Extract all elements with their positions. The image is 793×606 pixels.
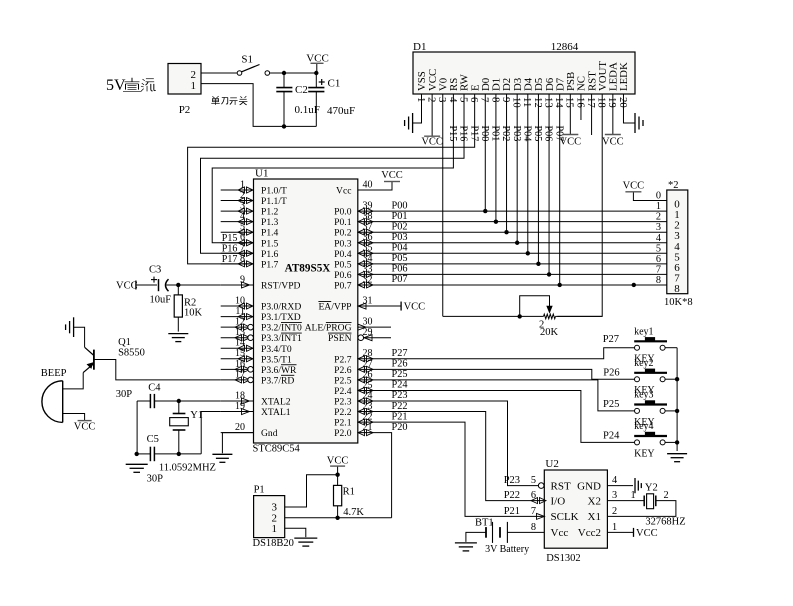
svg-text:P1.2: P1.2 — [261, 207, 279, 218]
rtc U2 right pin numbers — [612, 475, 617, 533]
label Y2 pin1 — [631, 490, 636, 501]
label C5 value 30P — [147, 474, 164, 485]
svg-text:P05: P05 — [392, 253, 408, 264]
label 5V DC (5V直流) — [106, 77, 156, 94]
svg-text:P17: P17 — [222, 254, 238, 265]
lcd D1 pin numbers 1-20 — [415, 97, 629, 108]
label Y2 — [645, 483, 658, 494]
wire lcd pin15 PSB — [569, 94, 571, 135]
svg-text:P26: P26 — [392, 359, 408, 370]
switch key3 — [634, 400, 677, 413]
mcu right pin names — [305, 186, 352, 440]
label C3 value 10uF — [150, 295, 172, 306]
svg-text:LEDK: LEDK — [618, 62, 630, 91]
wire P2 pin1 to caps bottom — [201, 84, 316, 127]
pot wiper arrow — [547, 306, 552, 312]
label net P17 on lcd wire — [468, 126, 479, 142]
rtc U2 left pin names — [551, 480, 579, 539]
label R1 value 4.7K — [343, 507, 364, 518]
label DS18B20 — [253, 538, 294, 549]
lcd module D1 box — [413, 52, 635, 94]
svg-text:STC89C54: STC89C54 — [253, 444, 301, 455]
wire lcd pin17 RST stub — [591, 94, 593, 135]
svg-text:P2.7: P2.7 — [334, 354, 352, 365]
svg-text:1: 1 — [415, 97, 427, 102]
node Y1 bottom junction — [177, 452, 181, 456]
svg-text:P24: P24 — [392, 380, 408, 391]
svg-text:D1: D1 — [413, 41, 426, 53]
svg-text:VCC: VCC — [623, 180, 645, 191]
svg-text:7: 7 — [479, 97, 491, 103]
label C1 — [328, 78, 341, 90]
svg-text:12: 12 — [532, 97, 544, 108]
svg-text:7: 7 — [531, 506, 536, 517]
node P07 junction near resnet — [632, 283, 636, 287]
svg-text:18: 18 — [235, 390, 245, 401]
svg-text:P00: P00 — [479, 126, 490, 142]
wire P0 bus P00-P07 — [358, 211, 667, 285]
svg-text:P3.7/RD: P3.7/RD — [261, 375, 294, 386]
vcc C3 (rst) — [116, 281, 138, 292]
svg-text:Vcc2: Vcc2 — [578, 527, 601, 539]
svg-text:32768HZ: 32768HZ — [645, 517, 685, 528]
svg-text:VCC: VCC — [116, 281, 138, 292]
svg-text:P03: P03 — [392, 232, 408, 243]
wire C3 to mcu pin9 — [167, 284, 221, 286]
svg-text:9: 9 — [500, 97, 512, 102]
ground keys — [667, 454, 687, 462]
label net P27 (mcu side) — [392, 348, 408, 359]
node key4 common junction — [675, 440, 679, 444]
svg-text:P07: P07 — [392, 274, 408, 285]
svg-text:Y2: Y2 — [645, 483, 658, 494]
wire pot wiper loop — [520, 296, 550, 317]
wire keys common — [676, 348, 678, 451]
label C5 — [147, 434, 159, 445]
svg-text:9: 9 — [240, 274, 245, 285]
label key2 — [634, 358, 653, 369]
label P0 bus nets — [392, 200, 408, 285]
vcc u2 Vcc2 — [634, 528, 658, 539]
label switch (单刀开关) — [211, 96, 247, 105]
wire P1 pin3 to R1 top — [285, 475, 338, 507]
svg-text:30: 30 — [363, 317, 373, 328]
node rst junction — [176, 283, 180, 287]
svg-text:2: 2 — [426, 97, 438, 102]
svg-text:P27: P27 — [603, 334, 619, 345]
wire lcd D0-D7 drops to P0 bus — [485, 94, 559, 285]
svg-text:key2: key2 — [634, 358, 653, 369]
connector P2 — [168, 64, 201, 95]
svg-text:DS1302: DS1302 — [546, 553, 580, 564]
svg-text:DS18B20: DS18B20 — [253, 538, 294, 549]
wire xtal1 to C5 — [201, 412, 221, 454]
svg-text:P0.1: P0.1 — [334, 217, 352, 228]
wire ground to Q1 — [74, 327, 85, 347]
label net P21 (mcu side) — [392, 411, 408, 422]
label S1 — [241, 54, 253, 66]
resistor-network *2 box — [667, 190, 688, 294]
label net P15 on lcd wire — [447, 126, 458, 142]
label key3 — [634, 390, 653, 401]
label resnet inside numbers — [674, 199, 680, 295]
svg-text:key3: key3 — [634, 390, 653, 401]
svg-text:P0.0: P0.0 — [334, 207, 352, 218]
switch S1 — [237, 65, 269, 76]
svg-text:BT1: BT1 — [475, 518, 494, 529]
svg-text:Q1: Q1 — [118, 337, 131, 348]
svg-text:1: 1 — [631, 490, 636, 501]
node C2 bottom junction — [282, 124, 286, 128]
wire lcd pin16 NC stub — [580, 94, 582, 120]
label C2 — [295, 84, 308, 96]
label DS1302 — [546, 553, 580, 564]
svg-text:1: 1 — [612, 522, 617, 533]
label net P27 (key side) — [603, 334, 619, 345]
svg-text:10: 10 — [511, 97, 523, 108]
svg-text:ALE/PROG: ALE/PROG — [305, 323, 352, 334]
rtc U2 right pin names — [577, 480, 601, 539]
svg-text:P22: P22 — [392, 401, 408, 412]
svg-text:P2: P2 — [179, 104, 191, 116]
svg-text:15: 15 — [564, 97, 576, 108]
wire lcd pin3 V0 to potentiometer — [442, 94, 444, 316]
vcc lcd PSB — [560, 135, 582, 148]
svg-text:P22: P22 — [504, 490, 520, 501]
svg-text:P01: P01 — [490, 126, 501, 142]
svg-text:P3.0/RXD: P3.0/RXD — [261, 302, 301, 313]
wire net P25 to key3 — [358, 380, 635, 411]
mcu left pin arrows — [235, 187, 253, 415]
rtc U2 pin6 arrows — [531, 498, 546, 504]
capacitor C2 — [276, 73, 292, 126]
vcc VCC (power entry) — [306, 53, 329, 73]
svg-text:P0.6: P0.6 — [334, 270, 352, 281]
svg-text:RST: RST — [551, 480, 571, 492]
svg-text:R1: R1 — [343, 487, 355, 498]
svg-text:P01: P01 — [392, 211, 408, 222]
svg-text:P0.3: P0.3 — [334, 238, 352, 249]
svg-text:P1.0/T: P1.0/T — [261, 186, 287, 197]
wire mcu pin30 ALE stub — [358, 326, 391, 328]
mcu left pin names — [261, 186, 302, 440]
svg-text:P2.4: P2.4 — [334, 386, 352, 397]
node Y1 top junction — [177, 399, 181, 403]
label net P15 (mcu side) — [222, 233, 238, 244]
svg-text:16: 16 — [574, 97, 586, 108]
svg-text:8: 8 — [489, 97, 501, 102]
svg-text:P3.5/T1: P3.5/T1 — [261, 354, 292, 365]
rtc U2 pin7 arrow — [537, 513, 545, 519]
svg-text:XTAL1: XTAL1 — [261, 407, 291, 418]
label C1 value 470uF — [327, 105, 355, 117]
vcc R1 — [327, 456, 349, 475]
resistor R1 — [334, 475, 342, 518]
svg-text:4: 4 — [447, 97, 459, 103]
svg-text:P25: P25 — [603, 399, 619, 410]
vcc mcu pin40 — [381, 170, 403, 182]
svg-text:XTAL2: XTAL2 — [261, 397, 291, 408]
vcc beep — [74, 421, 96, 433]
svg-text:P24: P24 — [603, 431, 620, 442]
svg-text:3: 3 — [656, 222, 661, 233]
svg-text:P23: P23 — [392, 390, 408, 401]
wire net P22 to ds1302 — [358, 412, 545, 501]
svg-text:19: 19 — [606, 97, 618, 108]
rtc U2 left pin numbers — [531, 475, 536, 533]
resistor 20K potentiometer body — [544, 314, 556, 319]
ground Q1 emitter — [66, 317, 74, 337]
svg-text:P15: P15 — [222, 233, 238, 244]
label Y1 — [190, 410, 203, 421]
wire mcu pin40 Vcc — [358, 182, 392, 191]
wire u2 X2 to crystal Y2 — [607, 500, 644, 502]
svg-text:P21: P21 — [392, 411, 408, 422]
svg-text:3: 3 — [436, 97, 448, 102]
svg-text:P20: P20 — [392, 422, 408, 433]
svg-text:P06: P06 — [543, 126, 554, 142]
svg-text:P0.7: P0.7 — [334, 280, 352, 291]
svg-text:U1: U1 — [255, 168, 268, 180]
svg-text:1: 1 — [656, 201, 661, 212]
label KEY under key3 — [634, 417, 655, 428]
switch key2 — [634, 369, 677, 382]
label net P17 (mcu side) — [222, 254, 238, 265]
ground BT1 — [455, 543, 477, 551]
rtc U2 DS1302 box — [544, 470, 607, 548]
vcc mcu EA/VPP — [401, 302, 425, 313]
label 32768HZ — [645, 517, 685, 528]
svg-text:U2: U2 — [545, 458, 558, 470]
svg-text:8: 8 — [531, 522, 536, 533]
label C2 value 0.1uF — [295, 104, 320, 116]
capacitor C4 — [137, 394, 179, 408]
svg-text:P3.4/T0: P3.4/T0 — [261, 344, 292, 355]
svg-text:P2.2: P2.2 — [334, 407, 352, 418]
wire lcd pin20 LEDK — [623, 94, 635, 123]
svg-text:Vcc: Vcc — [336, 186, 351, 197]
svg-text:P21: P21 — [504, 506, 520, 517]
label resnet designator *2 — [668, 180, 679, 191]
svg-text:8: 8 — [674, 283, 680, 295]
label BEEP — [41, 368, 67, 379]
mcu left pin stubs — [221, 190, 254, 433]
svg-text:17: 17 — [585, 97, 597, 108]
svg-text:0: 0 — [656, 191, 661, 202]
svg-text:6: 6 — [656, 254, 661, 265]
wire Q1 collector to beep — [63, 373, 83, 389]
node key2 common junction — [675, 377, 679, 381]
wire net P15 (lcd RS to mcu P1.5) — [212, 94, 453, 243]
capacitor C3 (polarized) — [151, 277, 169, 292]
wire battery to ground — [466, 532, 486, 542]
rtc U2 pin5 bubble — [538, 483, 544, 489]
label pot value 20K — [540, 327, 559, 338]
svg-text:P2.0: P2.0 — [334, 428, 352, 439]
transistor Q1 S8550 — [83, 347, 94, 372]
wire P1 pin1 to ground — [285, 528, 306, 537]
label net P25 (mcu side) — [392, 369, 408, 380]
svg-text:6: 6 — [468, 97, 480, 103]
ground P1 — [294, 538, 317, 546]
svg-text:X1: X1 — [588, 511, 601, 523]
ground R2 — [168, 334, 188, 342]
svg-text:P3.1/TXD: P3.1/TXD — [261, 312, 301, 323]
svg-text:P27: P27 — [392, 348, 408, 359]
label net P21 (u2 side) — [504, 506, 520, 517]
wire mcu pin20 Gnd — [222, 433, 253, 454]
label P1 — [254, 485, 265, 496]
label Q1 type S8550 — [118, 348, 145, 359]
wire beep to vcc — [63, 414, 85, 421]
connector P1 (DS18B20) box — [254, 496, 285, 538]
label KEY under key2 — [634, 385, 655, 396]
label D1 — [413, 41, 426, 53]
label C3 — [149, 265, 161, 276]
wire P1 pin2 to P20 — [285, 517, 392, 519]
vcc resnet — [623, 180, 645, 192]
ground lcd LEDK — [635, 113, 643, 133]
svg-text:40: 40 — [363, 179, 373, 190]
svg-text:P06: P06 — [392, 264, 408, 275]
wire xtal2 row — [179, 400, 221, 402]
svg-text:30P: 30P — [116, 389, 133, 400]
svg-text:18: 18 — [596, 97, 608, 108]
label KEY under key1 — [634, 354, 655, 365]
wire mcu pin31 EA/VPP — [358, 305, 401, 307]
label Y1 value 11.0592MHZ — [159, 463, 216, 474]
svg-text:*2: *2 — [668, 180, 679, 191]
label resnet outside pin numbers — [656, 191, 661, 286]
capacitor C1 (polarized) — [308, 73, 325, 126]
svg-text:VCC: VCC — [306, 53, 329, 65]
label net P16 on lcd wire — [458, 126, 469, 142]
svg-text:3: 3 — [612, 490, 617, 501]
label nets P00-P07 on lcd wires — [479, 126, 564, 142]
node R1 bottom junction — [335, 516, 339, 520]
label pot designator 2 — [539, 320, 544, 331]
wire net P26 to key2 — [358, 369, 635, 379]
label net P23 (mcu side) — [392, 390, 408, 401]
svg-text:KEY: KEY — [634, 448, 655, 459]
svg-text:P16: P16 — [222, 244, 238, 255]
svg-text:C3: C3 — [149, 265, 161, 276]
svg-text:GND: GND — [577, 480, 601, 492]
mcu right pin arrows — [358, 208, 373, 436]
svg-text:P25: P25 — [392, 369, 408, 380]
wire P2 pin2 to switch — [201, 72, 237, 74]
svg-text:20: 20 — [235, 422, 245, 433]
node lcd data junction dots — [483, 209, 562, 287]
vcc lcd LEDA — [602, 135, 624, 148]
svg-text:1: 1 — [272, 523, 278, 535]
svg-text:C4: C4 — [148, 383, 161, 394]
wire C4 left down — [136, 401, 138, 454]
label C4 — [148, 383, 161, 394]
svg-text:VCC: VCC — [381, 170, 403, 181]
label net P26 (key side) — [603, 367, 619, 378]
label net P22 (mcu side) — [392, 401, 408, 412]
crystal Y2 — [644, 494, 656, 509]
label 3V Battery — [485, 544, 529, 555]
label C4 value 30P — [116, 389, 133, 400]
svg-text:1: 1 — [191, 80, 197, 92]
svg-text:VCC: VCC — [327, 456, 349, 467]
svg-text:VCC: VCC — [421, 137, 443, 148]
svg-text:P16: P16 — [458, 126, 469, 142]
wire Q1 base to mcu P3.7 — [94, 360, 221, 380]
label key1 — [634, 326, 653, 337]
svg-text:P2.6: P2.6 — [334, 365, 352, 376]
svg-text:P2.3: P2.3 — [334, 397, 352, 408]
svg-text:P1.3: P1.3 — [261, 217, 279, 228]
capacitor C5 — [137, 447, 202, 462]
svg-text:11.0592MHZ: 11.0592MHZ — [159, 463, 216, 474]
svg-text:31: 31 — [363, 295, 373, 306]
label net P16 (mcu side) — [222, 244, 238, 255]
svg-text:C2: C2 — [295, 84, 308, 96]
svg-text:key1: key1 — [634, 326, 653, 337]
mcu right pin numbers — [363, 179, 373, 433]
svg-text:P3.3/INT1: P3.3/INT1 — [261, 333, 302, 344]
label U2 — [545, 458, 558, 470]
label net P20 (mcu side) — [392, 422, 408, 433]
svg-text:10K: 10K — [184, 308, 203, 319]
svg-text:7: 7 — [656, 264, 661, 275]
svg-text:EA/VPP: EA/VPP — [318, 302, 351, 313]
ground lcd VSS — [405, 113, 413, 133]
svg-text:Vcc: Vcc — [551, 527, 569, 539]
node pot wiper junction — [518, 314, 522, 318]
wire u2 GND pin4 — [607, 485, 633, 487]
svg-text:P17: P17 — [468, 126, 479, 142]
wire vcc to C3 — [136, 284, 157, 286]
svg-text:2: 2 — [612, 506, 617, 517]
label KEY under key4 — [634, 448, 655, 459]
svg-text:P03: P03 — [511, 126, 522, 142]
svg-text:P0.4: P0.4 — [334, 249, 352, 260]
svg-text:P1.1/T: P1.1/T — [261, 196, 287, 207]
svg-text:VCC: VCC — [602, 136, 624, 147]
label R1 — [343, 487, 355, 498]
crystal Y1 — [170, 401, 189, 454]
svg-text:P1: P1 — [254, 485, 265, 496]
wire lcd pin19 LEDA — [612, 94, 614, 135]
svg-text:14: 14 — [553, 97, 565, 108]
svg-text:S1: S1 — [241, 54, 253, 66]
svg-text:11: 11 — [521, 97, 533, 107]
svg-text:Gnd: Gnd — [261, 428, 278, 439]
resistor R2 — [174, 285, 182, 332]
wire net P16 (lcd RW to mcu P1.6) — [201, 94, 465, 253]
node C1 top junction — [314, 71, 318, 75]
wire V0 to pot left — [443, 315, 544, 317]
svg-text:P05: P05 — [532, 126, 543, 142]
svg-text:VCC: VCC — [74, 422, 96, 433]
wire Y2 to u2 X1 — [607, 501, 676, 517]
label net P26 (mcu side) — [392, 359, 408, 370]
wire lcd pin2 VCC — [431, 94, 433, 136]
svg-text:2: 2 — [656, 212, 661, 223]
wire net P21 to ds1302 — [358, 422, 545, 516]
mcu U1 box — [254, 179, 358, 443]
wire mcu pin29 PSEN stub — [364, 337, 391, 339]
svg-text:P04: P04 — [392, 243, 408, 254]
svg-text:X2: X2 — [588, 495, 601, 507]
svg-text:8: 8 — [656, 275, 661, 286]
label U1 — [255, 168, 268, 180]
node C5 ground junction — [135, 452, 139, 456]
